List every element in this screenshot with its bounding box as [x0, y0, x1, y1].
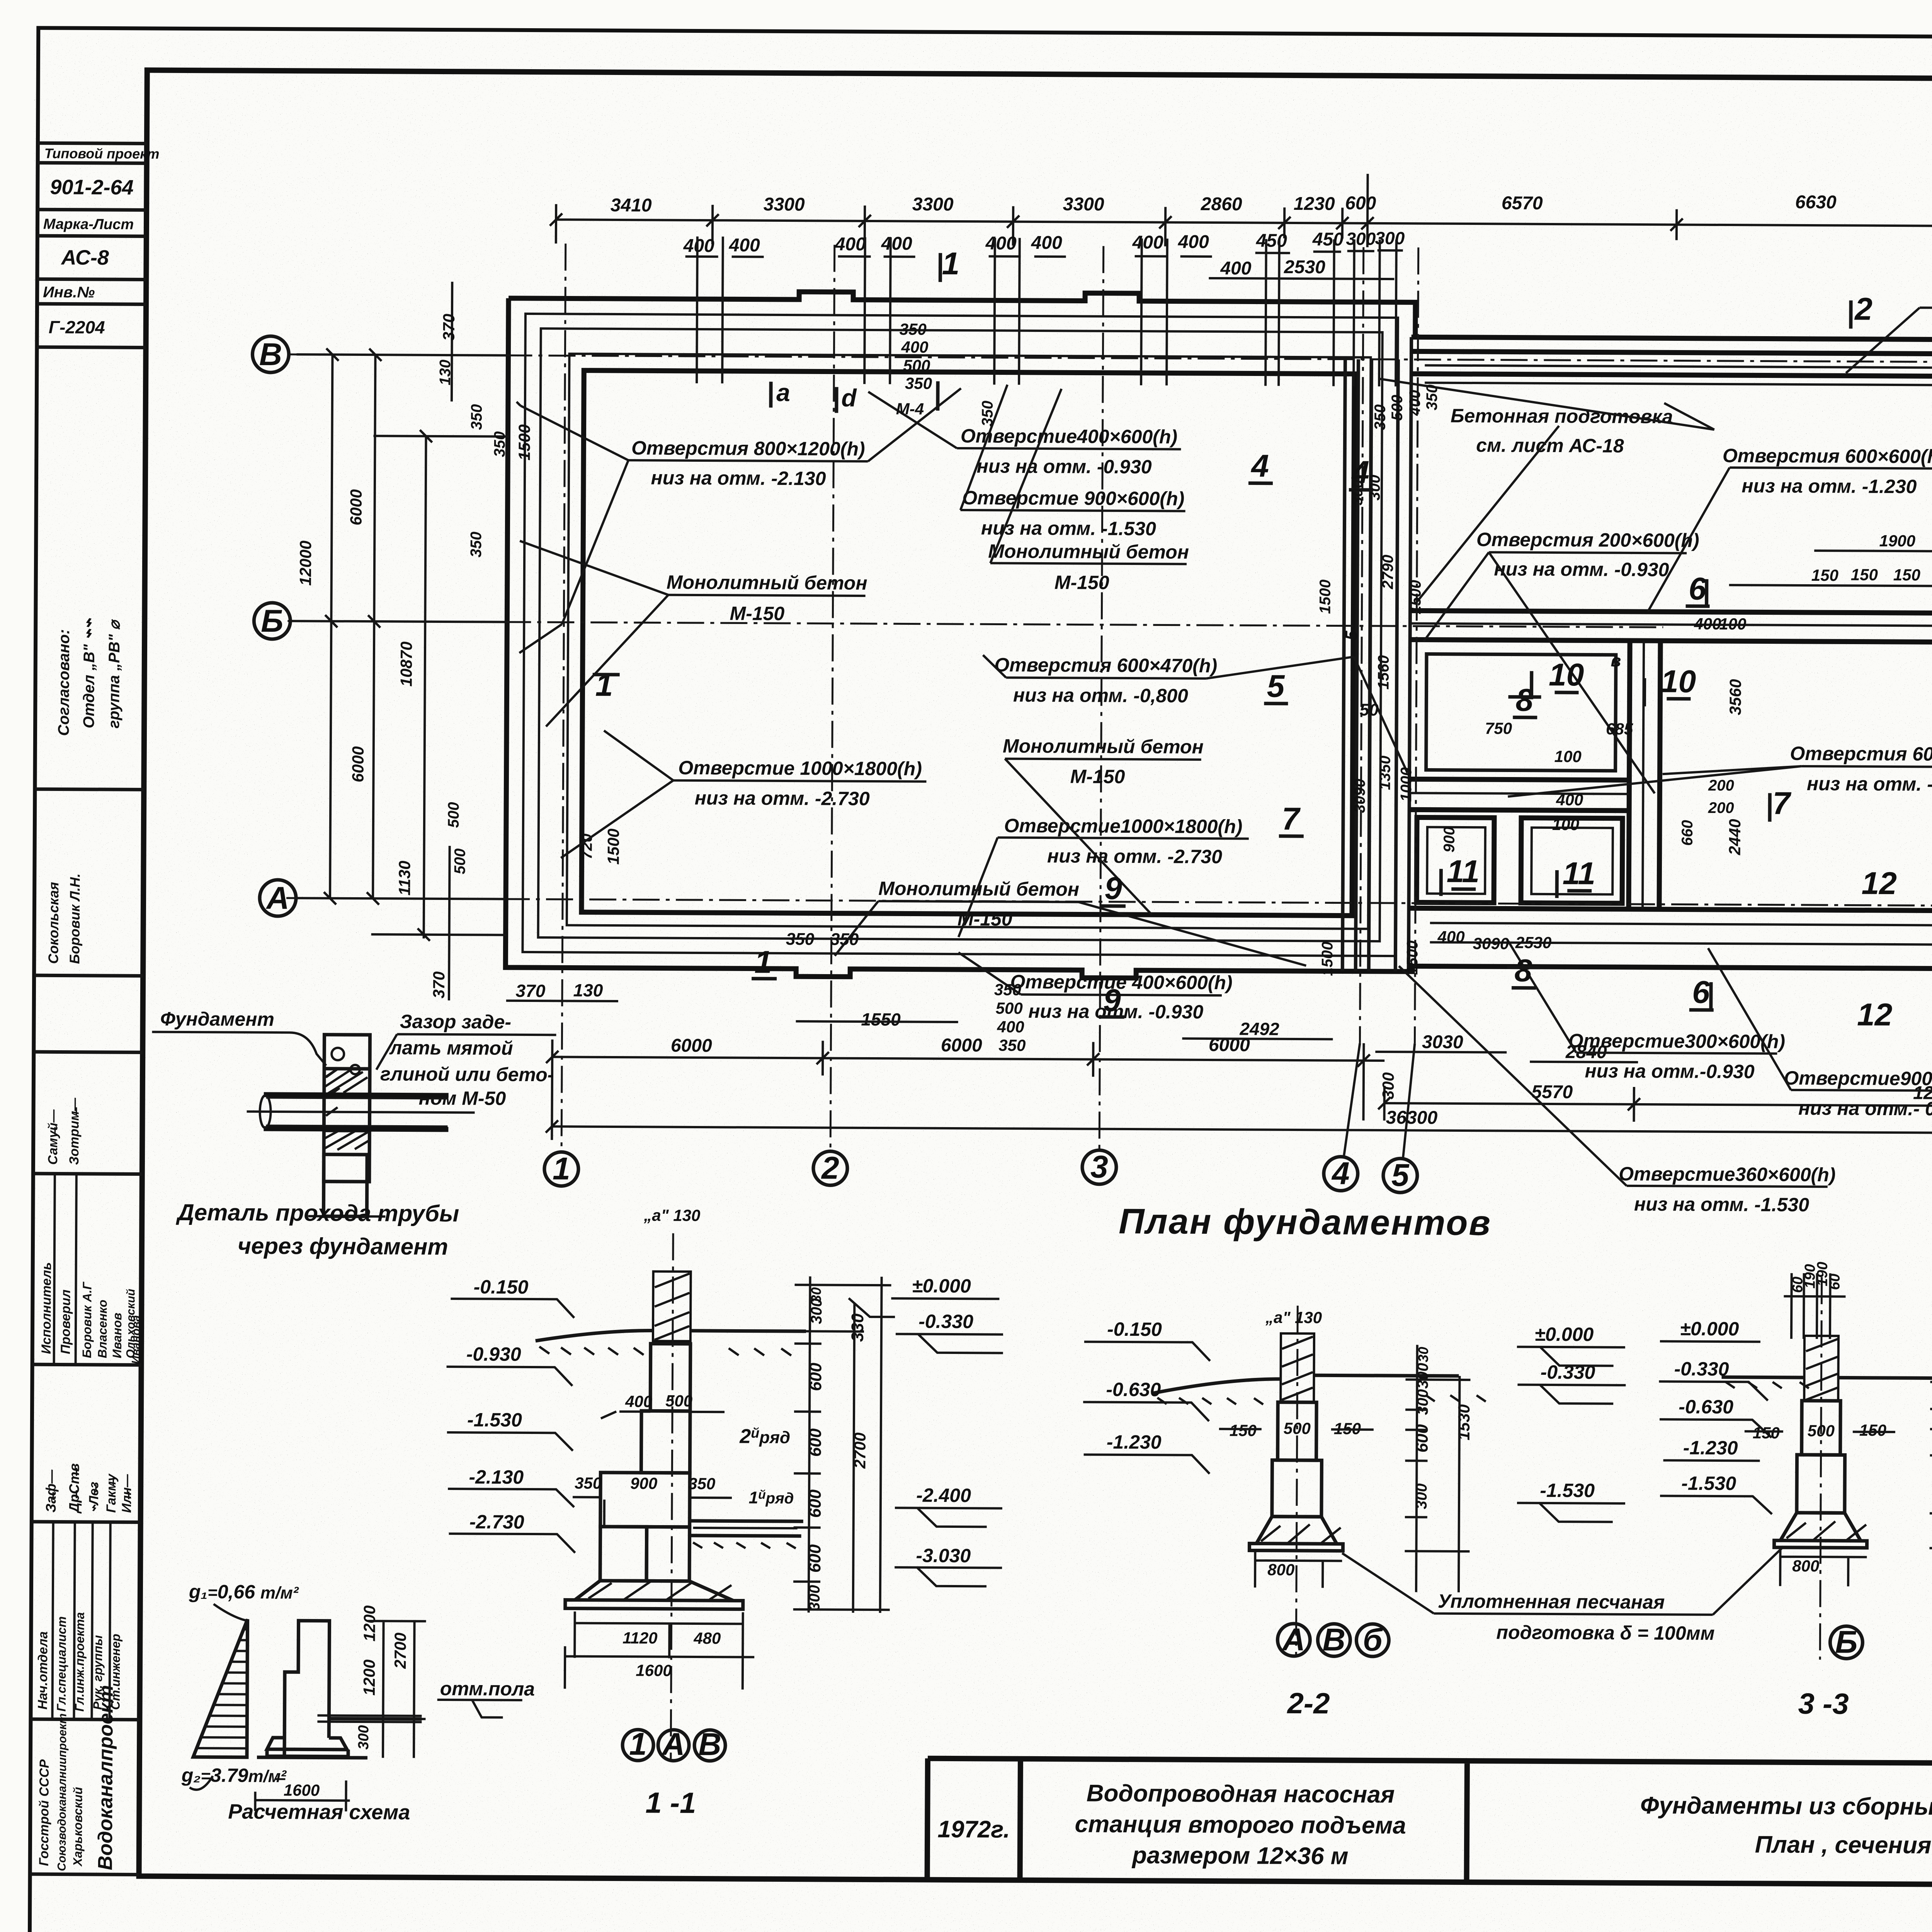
svg-text:400: 400	[997, 1017, 1024, 1036]
svg-text:Отверстия 600×600(h): Отверстия 600×600(h)	[1723, 445, 1932, 468]
svg-text:Отверстие 900×600(h): Отверстие 900×600(h)	[962, 487, 1184, 510]
svg-text:370: 370	[440, 314, 458, 341]
svg-text:350: 350	[1423, 384, 1440, 410]
svg-text:Боровик Л.Н.: Боровик Л.Н.	[66, 873, 83, 964]
svg-text:350: 350	[468, 532, 485, 558]
svg-text:А: А	[1282, 1622, 1306, 1657]
svg-text:-0.630: -0.630	[1679, 1396, 1733, 1418]
svg-text:400: 400	[683, 236, 715, 256]
svg-text:низ на отм.-0.930: низ на отм.-0.930	[1585, 1060, 1754, 1082]
svg-text:900: 900	[630, 1474, 657, 1492]
svg-text:400: 400	[729, 235, 760, 255]
svg-text:350: 350	[1372, 405, 1389, 430]
svg-text:400: 400	[1220, 258, 1252, 279]
svg-text:6000: 6000	[349, 746, 367, 782]
svg-text:720: 720	[578, 833, 595, 859]
svg-text:2: 2	[821, 1150, 839, 1185]
svg-text:Расчетная схема: Расчетная схема	[228, 1800, 410, 1824]
svg-text:1: 1	[553, 1151, 570, 1186]
svg-text:1900: 1900	[1879, 532, 1915, 550]
svg-text:6570: 6570	[1502, 193, 1543, 213]
svg-text:10870: 10870	[397, 641, 416, 687]
svg-text:d: d	[841, 384, 857, 412]
svg-text:б: б	[1363, 1622, 1383, 1658]
svg-text:Отверстия 600×600(h): Отверстия 600×600(h)	[1790, 743, 1932, 765]
svg-text:1350: 1350	[1376, 755, 1393, 790]
svg-text:глиной или бето-: глиной или бето-	[380, 1063, 554, 1085]
svg-text:300: 300	[1379, 1072, 1397, 1099]
svg-text:Согласовано:: Согласовано:	[55, 629, 73, 736]
svg-text:2-2: 2-2	[1286, 1687, 1330, 1720]
svg-text:Отдел „В" ⌁⌁: Отдел „В" ⌁⌁	[78, 618, 98, 728]
svg-text:-3.030: -3.030	[916, 1545, 971, 1567]
svg-text:Бетонная подготовка: Бетонная подготовка	[1451, 405, 1673, 428]
svg-text:350: 350	[575, 1474, 602, 1492]
svg-text:10: 10	[1549, 657, 1584, 692]
svg-text:Отверстия 200×600(h): Отверстия 200×600(h)	[1476, 529, 1699, 551]
svg-text:Иванов: Иванов	[110, 1313, 124, 1358]
svg-text:размером 12×36 м: размером 12×36 м	[1131, 1842, 1349, 1870]
svg-text:2700: 2700	[391, 1633, 409, 1669]
svg-text:Отверстия 600×470(h): Отверстия 600×470(h)	[994, 654, 1217, 677]
svg-text:М-150: М-150	[730, 602, 784, 624]
svg-text:Типовой проект: Типовой проект	[44, 145, 160, 162]
svg-text:Гакм̶у: Гакм̶у	[104, 1473, 119, 1513]
svg-text:200: 200	[1708, 777, 1734, 794]
svg-text:В: В	[698, 1727, 721, 1762]
svg-text:300: 300	[1346, 229, 1376, 249]
svg-text:Зазор заде-: Зазор заде-	[400, 1010, 512, 1032]
svg-text:Отверстие300×600(h): Отверстие300×600(h)	[1568, 1030, 1785, 1053]
svg-text:500: 500	[996, 999, 1023, 1017]
svg-text:2440: 2440	[1726, 819, 1744, 855]
svg-text:1: 1	[629, 1726, 647, 1762]
svg-text:Ил̶н—: Ил̶н—	[119, 1474, 134, 1513]
svg-text:400: 400	[1132, 232, 1164, 253]
svg-text:низ на отм. -0.930: низ на отм. -0.930	[977, 455, 1152, 478]
svg-text:400: 400	[901, 338, 928, 356]
svg-text:низ на отм. -0.930: низ на отм. -0.930	[1494, 558, 1669, 580]
svg-text:6000: 6000	[347, 489, 365, 526]
svg-text:Отверстие1000×1800(h): Отверстие1000×1800(h)	[1004, 815, 1242, 838]
svg-text:100: 100	[1554, 747, 1582, 765]
svg-text:Деталь прохода трубы: Деталь прохода трубы	[175, 1199, 459, 1226]
svg-text:Уплотненная песчаная: Уплотненная песчаная	[1438, 1590, 1665, 1613]
svg-text:600: 600	[1345, 193, 1376, 214]
svg-text:Зотрим̶—: Зотрим̶—	[67, 1097, 82, 1165]
svg-text:1500: 1500	[1404, 940, 1421, 975]
svg-text:150: 150	[1811, 566, 1838, 584]
svg-text:600: 600	[1413, 1424, 1432, 1452]
svg-text:Отверстие400×600(h): Отверстие400×600(h)	[961, 425, 1177, 448]
svg-text:150: 150	[1859, 1421, 1886, 1439]
svg-text:5: 5	[1267, 669, 1285, 704]
svg-text:А: А	[661, 1727, 685, 1762]
svg-text:6000: 6000	[941, 1035, 982, 1056]
svg-text:Монолитный бетон: Монолитный бетон	[667, 571, 867, 594]
svg-text:1600: 1600	[284, 1781, 320, 1799]
svg-text:М-150: М-150	[1054, 571, 1109, 594]
svg-text:3410: 3410	[611, 195, 652, 216]
svg-text:2790: 2790	[1379, 554, 1396, 589]
svg-text:В: В	[259, 337, 282, 372]
svg-text:-1.530: -1.530	[467, 1409, 522, 1431]
svg-text:-0.150: -0.150	[1107, 1318, 1162, 1340]
svg-text:36300: 36300	[1386, 1107, 1438, 1128]
svg-text:500: 500	[665, 1392, 692, 1410]
svg-text:3090: 3090	[1351, 779, 1368, 813]
svg-text:150: 150	[1230, 1421, 1257, 1439]
svg-text:350: 350	[905, 374, 932, 392]
svg-text:11: 11	[1447, 854, 1480, 889]
svg-text:7: 7	[1772, 786, 1791, 821]
svg-text:низ на отм.- 0.930: низ на отм.- 0.930	[1798, 1097, 1932, 1120]
svg-text:-0.150: -0.150	[474, 1276, 529, 1298]
svg-text:4: 4	[1331, 1156, 1350, 1191]
svg-text:1500: 1500	[604, 828, 622, 865]
svg-text:Г-2204: Г-2204	[49, 317, 105, 337]
svg-text:Проверил: Проверил	[58, 1289, 73, 1354]
svg-text:400: 400	[835, 234, 866, 255]
svg-text:400: 400	[1694, 615, 1721, 633]
svg-text:1500: 1500	[515, 424, 533, 461]
svg-text:2йряд: 2йряд	[739, 1425, 790, 1448]
svg-text:„а" 130: „а" 130	[1265, 1308, 1322, 1327]
svg-text:800: 800	[1792, 1557, 1819, 1575]
svg-text:901-2-64: 901-2-64	[50, 175, 133, 199]
svg-text:750: 750	[1485, 719, 1512, 737]
svg-text:3030: 3030	[1422, 1032, 1463, 1052]
svg-text:±0.000: ±0.000	[1680, 1318, 1739, 1340]
svg-text:900: 900	[1441, 827, 1458, 852]
svg-text:500: 500	[1389, 395, 1406, 421]
svg-text:Монолитный бетон: Монолитный бетон	[988, 540, 1189, 563]
svg-text:-2.130: -2.130	[469, 1466, 524, 1488]
svg-text:2492: 2492	[1239, 1019, 1279, 1039]
svg-text:10: 10	[1661, 664, 1696, 699]
svg-text:Власенко: Власенко	[95, 1299, 110, 1358]
svg-text:Водопроводная насосная: Водопроводная насосная	[1087, 1780, 1395, 1808]
svg-text:3300: 3300	[1063, 194, 1104, 214]
svg-text:400: 400	[1031, 233, 1063, 253]
svg-text:50: 50	[1360, 701, 1379, 719]
svg-text:Нач.отдела: Нач.отдела	[36, 1631, 51, 1710]
svg-text:3560: 3560	[1726, 679, 1744, 715]
svg-text:„а" 130: „а" 130	[643, 1206, 700, 1225]
svg-text:низ на отм. -1.530: низ на отм. -1.530	[1634, 1193, 1809, 1216]
svg-text:Инв.№: Инв.№	[43, 284, 95, 301]
svg-text:500: 500	[445, 802, 462, 828]
svg-text:Отверстие 400×600(h): Отверстие 400×600(h)	[1010, 971, 1232, 994]
svg-text:685: 685	[1606, 720, 1633, 738]
svg-text:3090: 3090	[1473, 934, 1509, 952]
svg-text:11: 11	[1563, 856, 1596, 891]
svg-text:1972г.: 1972г.	[937, 1816, 1010, 1843]
svg-text:Водоканалпроект: Водоканалпроект	[94, 1685, 117, 1871]
svg-text:100: 100	[1719, 615, 1746, 633]
svg-text:Б: Б	[1835, 1624, 1857, 1660]
svg-text:Гл.специалист: Гл.специалист	[54, 1616, 69, 1712]
svg-text:130: 130	[437, 360, 454, 386]
svg-text:800: 800	[1267, 1561, 1294, 1579]
svg-text:g₂=3.79т/м̶²: g₂=3.79т/м̶²	[181, 1764, 287, 1786]
svg-text:500: 500	[1808, 1422, 1835, 1440]
svg-text:350: 350	[830, 930, 859, 949]
svg-text:2860: 2860	[1201, 194, 1242, 214]
svg-text:2530: 2530	[1284, 257, 1325, 277]
svg-text:Харьковский: Харьковский	[71, 1787, 85, 1867]
svg-text:-0.630: -0.630	[1106, 1379, 1161, 1401]
svg-text:низ на отм. -2.130: низ на отм. -2.130	[651, 467, 826, 489]
svg-text:Б: Б	[261, 604, 283, 639]
svg-text:1200: 1200	[360, 1605, 378, 1642]
svg-text:Сокольская: Сокольская	[45, 882, 61, 964]
svg-text:1120: 1120	[622, 1629, 658, 1647]
svg-text:-2.400: -2.400	[916, 1485, 971, 1507]
svg-text:1550: 1550	[861, 1009, 901, 1029]
svg-text:низ на отм. -0.930: низ на отм. -0.930	[1807, 773, 1932, 795]
svg-text:Исполнитель: Исполнитель	[39, 1262, 54, 1354]
svg-text:-1.230: -1.230	[1107, 1431, 1162, 1453]
svg-text:g₁=0,66 т/м²: g₁=0,66 т/м²	[189, 1581, 299, 1603]
svg-text:3300: 3300	[912, 194, 954, 214]
svg-text:А: А	[265, 881, 289, 916]
svg-text:12: 12	[1857, 997, 1893, 1032]
svg-text:200: 200	[1708, 799, 1734, 816]
svg-text:350: 350	[688, 1475, 715, 1493]
svg-text:130: 130	[573, 980, 603, 1000]
svg-text:низ на отм. -0,800: низ на отм. -0,800	[1013, 684, 1188, 707]
svg-text:350: 350	[468, 404, 485, 430]
svg-text:Боровик А.Г: Боровик А.Г	[80, 1281, 94, 1358]
svg-text:-1.530: -1.530	[1540, 1480, 1595, 1502]
svg-text:400: 400	[1406, 390, 1423, 416]
svg-text:±0.000: ±0.000	[1535, 1323, 1594, 1345]
svg-text:6630: 6630	[1795, 192, 1837, 213]
svg-text:500: 500	[1284, 1419, 1311, 1437]
svg-text:330: 330	[848, 1313, 867, 1342]
svg-text:Фундаменты из сборных блоко: Фундаменты из сборных блоков.	[1640, 1792, 1932, 1821]
svg-text:3300: 3300	[764, 194, 805, 215]
svg-text:через фундамент: через фундамент	[238, 1233, 448, 1260]
svg-text:7: 7	[1282, 801, 1301, 837]
svg-text:5: 5	[1342, 631, 1361, 640]
svg-text:низ на отм. -2.730: низ на отм. -2.730	[695, 787, 870, 810]
svg-text:1500: 1500	[1407, 580, 1424, 614]
svg-text:1500: 1500	[1316, 580, 1333, 614]
svg-text:150: 150	[1893, 566, 1920, 584]
svg-text:План фундаментов: План фундаментов	[1119, 1202, 1492, 1243]
svg-text:Саму̶й—: Саму̶й—	[46, 1109, 61, 1165]
svg-text:АС-8: АС-8	[60, 246, 109, 269]
svg-text:5: 5	[1391, 1158, 1410, 1193]
svg-text:Монолитный бетон: Монолитный бетон	[1003, 735, 1204, 758]
svg-text:Монолитный бетон: Монолитный бетон	[878, 878, 1079, 900]
svg-text:400: 400	[985, 233, 1017, 253]
svg-text:1: 1	[942, 246, 960, 281]
svg-text:1200: 1200	[360, 1660, 378, 1696]
svg-text:⌁Ле̶з: ⌁Ле̶з	[87, 1482, 101, 1513]
svg-text:Отверстие 1000×1800(h): Отверстие 1000×1800(h)	[678, 757, 922, 780]
svg-text:300: 300	[1366, 474, 1383, 500]
svg-text:450: 450	[1312, 229, 1344, 250]
svg-text:М-150: М-150	[1070, 765, 1125, 787]
svg-text:8: 8	[1514, 953, 1532, 988]
svg-text:12: 12	[1861, 866, 1897, 901]
svg-text:-0.330: -0.330	[918, 1311, 973, 1333]
svg-text:М-4: М-4	[896, 400, 924, 418]
svg-text:1560: 1560	[1375, 655, 1392, 689]
svg-text:лать мятой: лать мятой	[389, 1037, 513, 1059]
svg-text:100: 100	[1552, 815, 1579, 833]
svg-text:Союзводоканалниипроект: Союзводоканалниипроект	[56, 1713, 69, 1871]
svg-text:2: 2	[1854, 292, 1872, 327]
svg-text:1йряд: 1йряд	[749, 1488, 794, 1508]
svg-text:150: 150	[1753, 1423, 1780, 1442]
svg-text:1 -1: 1 -1	[645, 1786, 696, 1820]
svg-text:Фундамент: Фундамент	[160, 1008, 274, 1030]
svg-text:1000: 1000	[1398, 767, 1415, 802]
svg-text:300: 300	[355, 1725, 372, 1750]
svg-text:9: 9	[1104, 871, 1122, 906]
svg-text:3 -3: 3 -3	[1798, 1687, 1849, 1721]
svg-text:группа „РВ" ⌀: группа „РВ" ⌀	[105, 619, 123, 728]
svg-text:Др̶Ст̶в: Др̶Ст̶в	[66, 1463, 82, 1514]
svg-text:370: 370	[516, 981, 546, 1001]
svg-text:4: 4	[1250, 448, 1269, 483]
svg-text:За̶ф—: За̶ф—	[43, 1469, 59, 1512]
svg-text:400: 400	[1178, 232, 1209, 252]
svg-text:300: 300	[1349, 480, 1366, 505]
svg-text:6: 6	[1689, 571, 1707, 607]
svg-text:-0.330: -0.330	[1674, 1358, 1729, 1380]
svg-text:-1.530: -1.530	[1681, 1473, 1736, 1495]
svg-text:6: 6	[1692, 975, 1710, 1010]
svg-text:150: 150	[1851, 566, 1878, 584]
svg-text:низ на отм. -1.230: низ на отм. -1.230	[1742, 475, 1917, 497]
svg-text:Марка-Лист: Марка-Лист	[43, 216, 134, 233]
svg-text:подготовка δ = 100мм: подготовка δ = 100мм	[1496, 1621, 1714, 1644]
svg-text:400: 400	[1556, 791, 1583, 809]
svg-text:2530: 2530	[1515, 934, 1552, 952]
svg-text:План , сечения: План , сечения	[1755, 1831, 1932, 1859]
svg-text:480: 480	[693, 1629, 721, 1647]
svg-text:350: 350	[900, 320, 927, 338]
svg-text:Иванова: Иванова	[130, 1315, 143, 1364]
svg-text:±0.000: ±0.000	[912, 1275, 971, 1297]
svg-text:370: 370	[430, 971, 448, 998]
svg-text:Отверстие360×600(h): Отверстие360×600(h)	[1619, 1163, 1835, 1186]
svg-text:6000: 6000	[671, 1036, 712, 1056]
svg-text:1600: 1600	[636, 1661, 672, 1679]
svg-text:-0.930: -0.930	[466, 1343, 521, 1365]
svg-text:a: a	[776, 379, 790, 406]
svg-text:Отверстия 800×1200(h): Отверстия 800×1200(h)	[631, 437, 865, 460]
svg-text:1230: 1230	[1294, 194, 1335, 214]
svg-text:500: 500	[451, 849, 468, 874]
svg-text:660: 660	[1679, 820, 1696, 846]
svg-text:12000: 12000	[296, 541, 315, 586]
svg-text:3: 3	[1090, 1150, 1108, 1185]
svg-text:400: 400	[881, 233, 913, 254]
svg-text:1: 1	[754, 945, 772, 980]
svg-text:350: 350	[979, 401, 996, 427]
svg-text:Госстрой СССР: Госстрой СССР	[37, 1759, 52, 1866]
svg-text:низ на отм. -2.730: низ на отм. -2.730	[1047, 845, 1222, 867]
svg-text:1130: 1130	[395, 861, 413, 896]
svg-text:350: 350	[786, 930, 815, 949]
svg-text:1530: 1530	[1455, 1404, 1473, 1440]
svg-text:350: 350	[994, 980, 1021, 998]
svg-text:400: 400	[1437, 928, 1465, 946]
svg-text:350: 350	[998, 1036, 1026, 1054]
svg-text:В: В	[1323, 1622, 1346, 1657]
svg-text:отм.пола: отм.пола	[440, 1678, 535, 1700]
svg-text:в: в	[1611, 651, 1621, 670]
svg-text:500: 500	[903, 356, 930, 374]
svg-text:350: 350	[491, 431, 508, 457]
svg-text:Отверстие900×600(h): Отверстие900×600(h)	[1784, 1067, 1932, 1090]
svg-text:-2.730: -2.730	[469, 1511, 524, 1533]
svg-text:-1.230: -1.230	[1683, 1437, 1738, 1459]
svg-text:450: 450	[1256, 231, 1287, 251]
svg-text:9: 9	[1103, 983, 1121, 1018]
svg-text:400: 400	[625, 1392, 652, 1410]
svg-text:1500: 1500	[1319, 942, 1336, 976]
svg-text:станция второго подъема: станция второго подъема	[1075, 1811, 1406, 1839]
